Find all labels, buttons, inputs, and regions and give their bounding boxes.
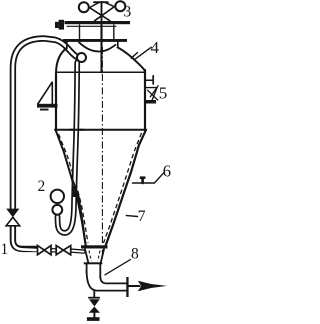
drain stub xyxy=(93,291,95,298)
gauge circle big xyxy=(51,190,64,203)
svg-text:7: 7 xyxy=(138,208,146,225)
belt line left-top xyxy=(90,2,100,7)
wall-pipe crossing blob xyxy=(73,186,77,197)
shaft under-line xyxy=(67,25,116,27)
vessel left wall xyxy=(55,74,57,132)
frame leg right xyxy=(113,25,115,39)
pipe to neck xyxy=(71,251,84,252)
product arrow shaft xyxy=(129,285,140,287)
bottom flange bar xyxy=(81,245,108,248)
vessel right wall xyxy=(144,70,146,131)
right stub with tick xyxy=(146,79,153,81)
riser lower elbow to horizontal xyxy=(13,227,37,250)
neck tube right wall xyxy=(99,264,101,278)
belt line right-top xyxy=(105,2,115,6)
cone wall redraw over pipe xyxy=(73,180,86,246)
motor crossbar xyxy=(94,1,108,3)
lower cone left wall xyxy=(85,249,88,262)
hat side left redraw xyxy=(66,42,68,48)
cone left inner dashed xyxy=(59,134,89,243)
motor post xyxy=(101,2,103,25)
drain tick xyxy=(88,297,100,299)
leader 4 xyxy=(136,47,152,59)
lower cone right wall xyxy=(101,249,104,262)
drain base bar xyxy=(87,317,100,321)
pipe between valves xyxy=(51,248,56,252)
left support bracket xyxy=(38,82,53,104)
svg-text:4: 4 xyxy=(151,38,160,57)
junction line cylinder-cone xyxy=(55,129,146,131)
drain valve lower triangle xyxy=(89,307,100,313)
nozzle elbow circle xyxy=(77,53,86,62)
cone left wall xyxy=(56,131,86,246)
frame leg mid / shaft into vessel xyxy=(100,25,102,72)
hat side left xyxy=(66,42,68,48)
atomizer shaft bar xyxy=(65,21,131,24)
top flange xyxy=(63,39,127,42)
gauge circle small xyxy=(52,205,62,215)
leader 7 xyxy=(126,216,137,217)
centerline xyxy=(101,47,103,258)
outlet elbow bottom xyxy=(87,271,127,291)
hat side right xyxy=(117,42,119,48)
cone right inner dashed xyxy=(104,133,142,243)
svg-text:5: 5 xyxy=(159,84,168,103)
leader 5 xyxy=(150,86,158,97)
neck flange bar xyxy=(84,262,103,264)
weld line redraw xyxy=(70,71,84,73)
pulley circle left xyxy=(79,2,89,12)
svg-text:8: 8 xyxy=(131,246,139,263)
dome left xyxy=(56,48,67,73)
dome right xyxy=(118,47,145,70)
dome sag arc xyxy=(79,42,116,51)
lower cone inner dashes xyxy=(89,251,91,262)
svg-text:3: 3 xyxy=(124,4,132,21)
svg-text:6: 6 xyxy=(163,162,171,181)
drain valve upper triangle xyxy=(89,299,100,306)
feed pipe riser upper with overhead bend xyxy=(13,39,77,209)
cone right wall xyxy=(106,130,147,246)
outlet flange xyxy=(126,277,128,297)
cock 6 xyxy=(133,182,155,184)
atomizer shaft bolt xyxy=(55,20,64,30)
valve V1 xyxy=(38,246,45,255)
belt cross right xyxy=(95,7,115,21)
neck tube left wall xyxy=(86,264,88,273)
leader 8 xyxy=(105,260,131,275)
leader 6 xyxy=(155,172,165,183)
right bracket xyxy=(146,88,157,101)
outlet duct top xyxy=(100,277,127,283)
svg-text:1: 1 xyxy=(1,241,9,258)
product arrow head xyxy=(138,281,167,291)
dome weld line xyxy=(56,71,145,73)
belt cross left xyxy=(90,8,110,21)
riser valve lower triangle xyxy=(6,217,20,226)
frame leg left xyxy=(79,25,81,39)
riser valve upper triangle xyxy=(6,209,19,218)
junction line redraw xyxy=(70,129,84,131)
internal pipe down to gauge U-bend xyxy=(58,63,78,233)
pulley circle right xyxy=(115,1,125,11)
drain lower stub xyxy=(93,313,95,318)
valve V2 xyxy=(56,246,63,255)
svg-text:2: 2 xyxy=(38,178,46,195)
